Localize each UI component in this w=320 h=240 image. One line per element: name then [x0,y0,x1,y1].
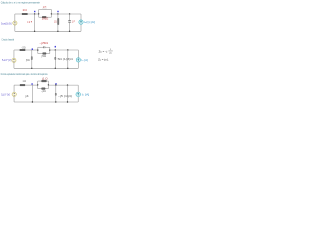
circuit1 wire: branch C at x=69.6 [69,14,71,31]
svg-text:Zс = −j: Zс = −j [99,50,108,53]
circuit2 node label b (blue) [55,46,56,48]
svg-text:iₒ(t) [A]: iₒ(t) [A] [84,21,95,24]
circuit1 label: 5cos(3t) [V] [1,23,12,26]
svg-text:Iₒ [A]: Iₒ [A] [81,59,88,62]
circuit1 junction dots bottom [34,31,70,32]
svg-text:−j5 (1/j4): −j5 (1/j4) [58,95,72,98]
circuit1 wire: top rail left segment [15,13,22,15]
circuit1 wire: loop top arc [39,9,52,11]
circuit2 wire: loop top arc [38,46,50,48]
circuit1 label: 100 ohm [42,17,49,20]
svg-text:1 Ω: 1 Ω [27,21,30,24]
circuit1 impedance box on branch B [58,18,59,24]
circuit1 wire: bottom rail [15,30,81,32]
svg-text:j4: j4 [24,95,30,98]
circuit2 capacitor -j/5 on loop top arc [44,46,45,48]
circuit1 wire: right vertical [80,14,82,31]
circuit2 label: j5 ohm below loop [40,55,46,58]
circuit3 label: -j4 ohm below loop [41,90,46,93]
circuit2 junction dots bottom [31,68,68,69]
title line 2: Circuito fasorial [2,37,15,41]
svg-text:Cálculo de vₒ e iₒ em regime p: Cálculo de vₒ e iₒ em regime permanente [1,1,40,5]
circuit1 label: 1 ohm branch A [27,21,30,24]
svg-text:j5Ω: j5Ω [40,55,46,58]
circuit1 wire: branch B at x=57.9 [57,14,59,31]
circuit2 junction dot branch C top [67,49,68,50]
circuit1 label: 1 F [72,21,76,24]
svg-text:100Ω: 100Ω [42,17,49,20]
equation Zc = -j 1/(wC) [99,49,113,54]
circuit2 label: 5ohm (1/j3) row [58,58,73,61]
circuit3 wire: loop bottom branch [38,88,49,90]
svg-text:1 Ω: 1 Ω [22,80,26,83]
circuit1 label: 1 H [43,6,47,9]
svg-text:5cos(3t) [V]: 5cos(3t) [V] [1,23,12,26]
circuit2 impedance j5 on loop bottom branch [43,53,46,55]
svg-text:−j/5Ω: −j/5Ω [39,42,48,45]
svg-text:1Ω: 1Ω [54,20,57,23]
circuit1 red dot marker after 1 ohm [31,21,32,22]
circuit2 label: sqrt2 ohm [22,46,26,50]
circuit1 current indicator io (cyan circle) [79,20,83,24]
circuit3 label: 5/_0 [V] [1,93,10,97]
circuit1 junction dot node b [57,13,58,14]
circuit3 wire: left vertical [13,85,15,102]
circuit3 label: j4 branch A [24,95,30,98]
circuit3 junction dots bottom [32,101,69,102]
svg-text:ωC: ωC [109,52,112,54]
circuit3 wire: right vertical [77,85,79,102]
circuit1 wire: left vertical [14,14,16,31]
circuit3 node label a (blue) [31,83,32,85]
circuit1 voltage source vin=5cos(3t) [13,21,17,25]
circuit3 wire: top rail right segment [48,84,78,86]
circuit1 label: 10 ohm [23,9,28,12]
circuit3 current indicator Io (cyan circle) [76,92,81,97]
circuit3 wire: bottom rail [14,101,78,103]
circuit1 wire: top rail to loop [28,13,39,15]
title line 3: Circuito equivalente no dominio da frequencia [1,72,48,76]
circuit1 junction dot branch C top [69,13,70,14]
circuit1 capacitor 1F on branch C [68,21,71,22]
svg-text:√2Ω: √2Ω [22,46,26,50]
circuit2 impedance box on branch B [55,57,56,59]
circuit2 label: j5 ohm branch A [25,59,30,62]
circuit1 resistor 100ohm on loop bottom branch [42,16,46,18]
circuit1 wire: branch A plain at x=34.6 [34,14,36,31]
circuit1 parallel loop stubs and junctions [38,10,52,18]
circuit3 voltage source 5 angle 0 V [12,92,16,96]
svg-text:−j4Ω: −j4Ω [41,90,46,93]
circuit3 parallel loop stubs and junctions [37,81,49,89]
circuit3 wire: loop top arc [38,80,49,82]
svg-text:5∠0° [V]: 5∠0° [V] [2,58,12,62]
circuit2 voltage source 5 angle 0 V [12,58,16,62]
circuit2 wire: bottom rail [14,67,78,69]
svg-text:Circuito equivalente transform: Circuito equivalente transformado para o… [1,72,48,76]
svg-text:Circuito fasorial: Circuito fasorial [2,37,15,41]
circuit2 label: -j/5 ohm [39,42,48,45]
circuit2 label: 5/_0 [V] [2,58,12,62]
circuit2 junction dot node b [55,49,56,50]
circuit2 wire: top rail to loop [25,49,38,51]
circuit3 wire: branch B plain at x=55.8 [55,85,57,102]
circuit2 parallel loop stubs and junctions [37,47,50,53]
circuit2 label: Io [A] [81,59,88,62]
svg-text:5Ω (1/j3)Ω: 5Ω (1/j3)Ω [58,58,73,61]
circuit2 wire: top rail left segment [14,49,20,51]
circuit2 impedance box on branch A [31,57,32,60]
circuit3 wire: branch A plain at x=32.4 [31,85,33,102]
circuit1 node label b (blue) [57,11,58,13]
circuit2 wire: top rail right segment [50,49,79,51]
circuit3 label: -j5 (1/j4) row [58,95,72,98]
circuit3 wire: top rail to loop [25,84,38,86]
title line 1: Calculo de vo e io em regime permanente [1,1,40,5]
circuit1 label: io(t) [A] [84,21,95,24]
svg-text:10 Ω: 10 Ω [23,9,28,12]
circuit3 label: 1 ohm [22,80,26,83]
circuit1 inductor 1H on loop top arc [42,8,46,10]
circuit3 node label b (blue) [55,83,56,85]
circuit3 impedance -j4 on loop bottom branch [42,88,46,90]
circuit2 wire: loop bottom branch [38,53,50,55]
circuit2 wire: branch A plain at x=31.8 [31,50,33,68]
circuit2 wire: branch B plain at x=55.3 [54,50,56,68]
circuit3 label: Io [A] [82,94,90,97]
circuit1 wire: loop bottom branch [39,16,52,18]
svg-text:j1 Ω: j1 Ω [41,77,47,80]
circuit3 wire: top rail left segment [14,84,20,86]
svg-text:Iₒ [A]: Iₒ [A] [82,94,90,97]
circuit2 current indicator Io (cyan circle) [76,58,80,62]
circuit2 node label a (blue) [32,48,33,50]
circuit3 impedance j1 on loop top arc [42,80,47,82]
circuit1 node label a (blue) [34,11,35,13]
circuit2 wire: right vertical [77,50,79,68]
circuit2 wire: branch C plain at x=67.8 [67,50,69,68]
circuit2 wire: left vertical [13,50,15,68]
circuit1 junction dot node a [34,13,35,14]
circuit3 impedance box on branch B [55,93,56,95]
circuit3 wire: branch C plain at x=67.5 [67,85,69,102]
circuit1 label: 1 ohm branch B [54,20,57,23]
circuit3 junction dot node b [55,84,56,85]
svg-text:Zʟ = jωL: Zʟ = jωL [98,58,109,61]
equation ZL = jwL [98,58,109,61]
svg-text:5∠0° [V]: 5∠0° [V] [1,93,10,97]
svg-text:j5Ω: j5Ω [25,59,30,62]
svg-text:1 F: 1 F [72,21,76,24]
circuit1 resistor 10ohm series on top rail [22,13,28,15]
circuit3 junction dot branch C top [67,84,68,85]
circuit3 impedance 1ohm series on top rail [20,84,25,86]
circuit3 label: j1 ohm [41,77,47,80]
circuit2 impedance sqrt2 series on top rail [20,49,25,51]
circuit1 wire: top rail right segment [51,13,81,15]
svg-text:1 H: 1 H [43,6,47,9]
